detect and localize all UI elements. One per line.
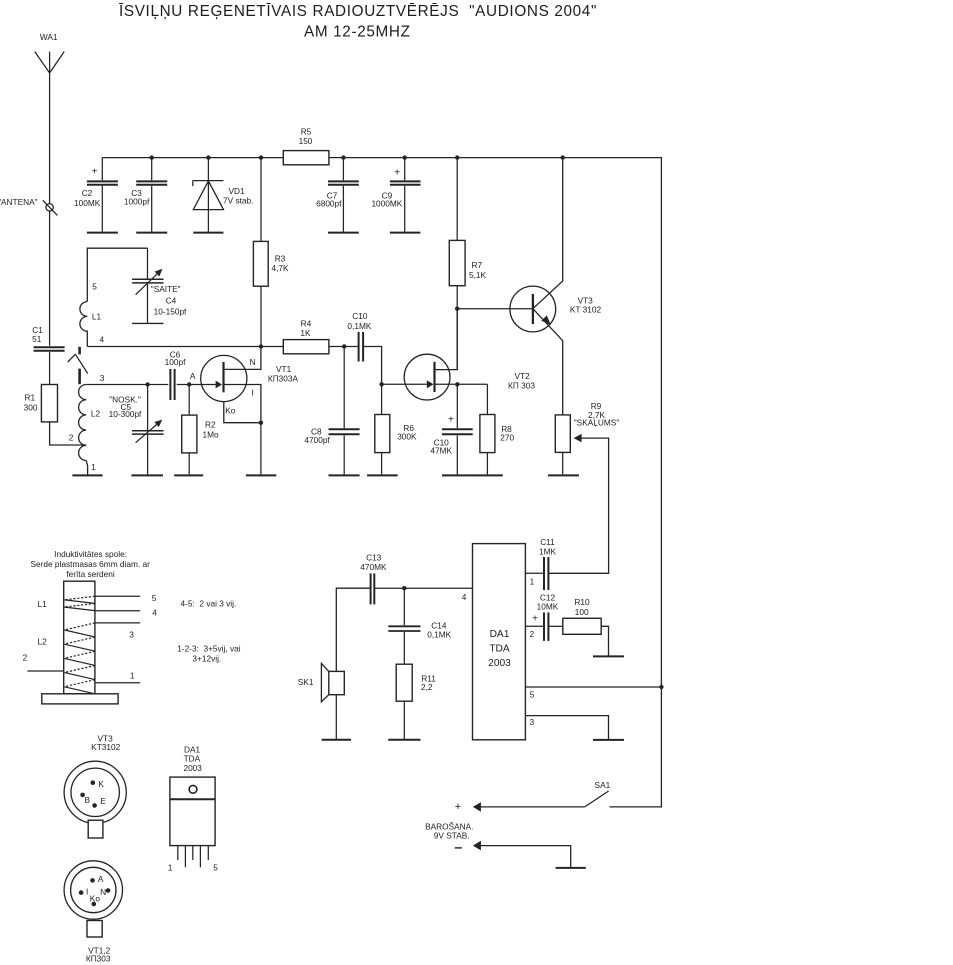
svg-text:L1: L1 [92, 311, 102, 321]
svg-text:L2: L2 [37, 637, 47, 647]
svg-text:300K: 300K [397, 431, 417, 441]
svg-text:10-150pf: 10-150pf [154, 307, 187, 317]
svg-text:7V stab.: 7V stab. [223, 195, 253, 205]
svg-text:KT3102: KT3102 [91, 742, 120, 752]
svg-text:+: + [394, 167, 400, 178]
svg-text:270: 270 [500, 433, 514, 443]
svg-text:SA1: SA1 [595, 780, 611, 790]
svg-text:300: 300 [24, 402, 38, 412]
svg-text:2: 2 [69, 432, 74, 442]
svg-text:R7: R7 [471, 260, 482, 270]
svg-text:5,1K: 5,1K [469, 270, 487, 280]
svg-text:C11: C11 [540, 537, 555, 547]
svg-text:4: 4 [152, 607, 157, 617]
svg-text:C10: C10 [352, 311, 368, 321]
svg-text:DA1: DA1 [490, 629, 510, 640]
svg-text:AM 12-25MHZ: AM 12-25MHZ [304, 24, 411, 41]
svg-text:1: 1 [130, 670, 135, 680]
svg-text:+: + [92, 167, 98, 178]
svg-text:4,7K: 4,7K [271, 263, 289, 273]
svg-text:КП 303: КП 303 [508, 381, 535, 391]
svg-text:51: 51 [32, 334, 42, 344]
svg-text:КП303А: КП303А [268, 374, 299, 384]
svg-text:A: A [190, 371, 196, 381]
svg-text:ferīta serdeni: ferīta serdeni [66, 569, 115, 579]
svg-text:3: 3 [100, 373, 105, 383]
svg-text:WA1: WA1 [40, 32, 58, 42]
svg-text:4-5: 2 vai 3 vij.: 4-5: 2 vai 3 vij. [181, 598, 237, 608]
svg-text:SK1: SK1 [298, 677, 314, 687]
svg-text:Serde plastmasas 6mm diam. ar: Serde plastmasas 6mm diam. ar [30, 559, 150, 569]
svg-text:Induktivitātes spole:: Induktivitātes spole: [54, 549, 127, 559]
svg-text:0,1MK: 0,1MK [347, 321, 371, 331]
svg-text:"SAITE": "SAITE" [151, 284, 181, 294]
svg-text:2003: 2003 [183, 763, 202, 773]
svg-text:100pf: 100pf [165, 357, 186, 367]
svg-text:B: B [85, 795, 91, 805]
svg-text:150: 150 [299, 136, 313, 146]
svg-text:1Mo: 1Mo [203, 429, 220, 439]
svg-text:9V STAB.: 9V STAB. [434, 831, 470, 841]
svg-text:ĪSVIĻŅU REĢENETĪVAIS RADIOUZTV: ĪSVIĻŅU REĢENETĪVAIS RADIOUZTVĒRĒJS "AUD… [119, 3, 597, 20]
svg-text:5: 5 [530, 690, 535, 700]
svg-text:A: A [98, 874, 104, 884]
svg-text:3: 3 [529, 717, 534, 727]
svg-text:1K: 1K [300, 328, 311, 338]
svg-text:2,2: 2,2 [421, 682, 433, 692]
svg-text:N: N [250, 357, 256, 367]
svg-text:+: + [448, 414, 454, 425]
svg-text:0,1MK: 0,1MK [427, 629, 451, 639]
svg-text:КП303: КП303 [86, 954, 111, 964]
svg-text:TDA: TDA [489, 644, 510, 655]
svg-text:47MK: 47MK [430, 446, 452, 456]
svg-text:I: I [86, 887, 88, 897]
svg-text:VD1: VD1 [229, 186, 246, 196]
svg-text:3+12vij.: 3+12vij. [192, 653, 221, 663]
svg-text:10-300pf: 10-300pf [109, 409, 142, 419]
svg-text:1: 1 [91, 462, 96, 472]
svg-text:5: 5 [92, 282, 97, 292]
svg-text:5: 5 [152, 593, 157, 603]
svg-text:4: 4 [99, 335, 104, 345]
svg-text:K: K [98, 779, 104, 789]
svg-text:4: 4 [462, 592, 467, 602]
svg-text:1: 1 [530, 576, 535, 586]
svg-text:R2: R2 [205, 420, 216, 430]
svg-text:KT 3102: KT 3102 [570, 304, 602, 314]
svg-text:R1: R1 [24, 392, 35, 402]
svg-text:1MK: 1MK [539, 547, 557, 557]
svg-text:470MK: 470MK [360, 562, 387, 572]
svg-text:+: + [455, 801, 461, 813]
svg-text:5: 5 [213, 862, 218, 872]
svg-text:+: + [532, 614, 538, 625]
svg-text:2: 2 [23, 653, 28, 663]
svg-text:10MK: 10MK [537, 601, 559, 611]
svg-text:6800pf: 6800pf [316, 198, 342, 208]
svg-text:3: 3 [129, 630, 134, 640]
svg-text:VT2: VT2 [514, 371, 530, 381]
svg-text:"ANTENA": "ANTENA" [0, 197, 38, 207]
svg-text:Ko: Ko [225, 406, 236, 416]
svg-text:C13: C13 [366, 552, 382, 562]
svg-text:L2: L2 [91, 409, 101, 419]
svg-text:1000MK: 1000MK [371, 198, 402, 208]
svg-text:100: 100 [575, 607, 589, 617]
svg-text:2: 2 [529, 629, 534, 639]
svg-text:C4: C4 [166, 296, 177, 306]
svg-text:N: N [100, 887, 106, 897]
svg-text:Ko: Ko [90, 894, 101, 904]
svg-text:C2: C2 [82, 188, 93, 198]
svg-text:R10: R10 [574, 597, 590, 607]
svg-text:1-2-3: 3+5vij, vai: 1-2-3: 3+5vij, vai [177, 643, 241, 653]
svg-text:"SKAĻUMS": "SKAĻUMS" [574, 417, 620, 427]
svg-text:2003: 2003 [488, 658, 511, 669]
svg-text:I: I [252, 387, 254, 397]
svg-text:R3: R3 [275, 254, 286, 264]
svg-text:1: 1 [168, 862, 173, 872]
svg-text:100MK: 100MK [74, 198, 101, 208]
svg-text:1000pf: 1000pf [124, 197, 150, 207]
svg-text:4700pf: 4700pf [304, 435, 330, 445]
svg-text:E: E [100, 796, 106, 806]
svg-text:L1: L1 [37, 599, 47, 609]
